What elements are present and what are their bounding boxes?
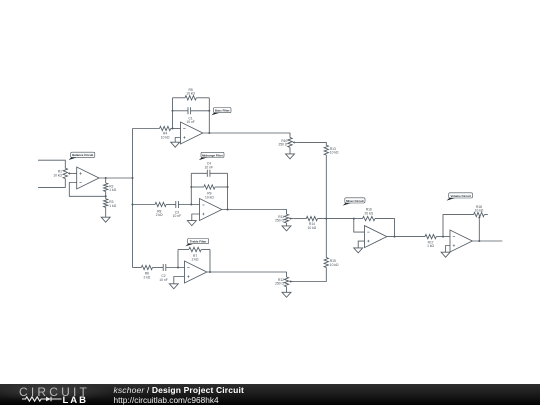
wire <box>105 178 107 183</box>
ground <box>354 248 363 253</box>
svg-text:10 kΩ: 10 kΩ <box>308 226 317 230</box>
svg-text:250 Ω: 250 Ω <box>279 143 288 147</box>
wire <box>175 138 180 143</box>
wire <box>436 236 450 238</box>
svg-text:10 nF: 10 nF <box>173 214 181 218</box>
svg-text:10 kΩ: 10 kΩ <box>330 263 339 267</box>
callout Bass Filter <box>211 108 231 116</box>
resistor R7 <box>189 247 201 251</box>
node Q <box>478 240 480 242</box>
label R14 10k <box>308 222 317 230</box>
resistor R4 <box>160 126 171 130</box>
resistor R15 <box>324 258 328 268</box>
wire <box>209 250 211 273</box>
svg-text:10 kΩ: 10 kΩ <box>53 173 62 177</box>
wire <box>73 172 77 174</box>
wire <box>210 172 228 174</box>
resistor R17 <box>425 234 436 238</box>
node P <box>442 236 444 238</box>
wire <box>173 97 186 99</box>
svg-text:10 kΩ: 10 kΩ <box>186 92 195 96</box>
node input bottom <box>38 179 65 188</box>
node G <box>190 204 192 206</box>
wire <box>318 218 354 220</box>
potentiometer R11 <box>284 214 293 223</box>
potentiometer R10 <box>288 138 297 148</box>
wire <box>201 249 210 251</box>
wire <box>286 287 288 293</box>
svg-text:Treble Filter: Treble Filter <box>190 240 207 244</box>
wire <box>191 110 210 112</box>
node N <box>353 218 355 220</box>
wire <box>208 98 210 133</box>
wire <box>105 192 107 197</box>
wire <box>166 204 176 206</box>
label R15 10k <box>330 259 339 267</box>
svg-text:20 kΩ: 20 kΩ <box>364 211 373 215</box>
node H <box>190 186 192 188</box>
ground <box>187 221 196 226</box>
svg-text:1 kΩ: 1 kΩ <box>109 204 116 208</box>
wire <box>178 249 189 251</box>
wire <box>294 268 327 282</box>
resistor R5 <box>185 96 196 100</box>
wire <box>207 272 287 277</box>
ground <box>101 217 110 222</box>
wire <box>171 128 181 130</box>
wire <box>105 207 107 217</box>
wire <box>190 173 192 204</box>
wire <box>297 142 326 145</box>
svg-text:Mixer Circuit: Mixer Circuit <box>346 199 364 203</box>
capacitor C4 <box>207 170 210 177</box>
wire <box>375 219 395 237</box>
node O <box>394 236 396 238</box>
node E <box>208 110 210 112</box>
label R16 20k <box>364 208 373 216</box>
ground <box>171 142 180 147</box>
label R17 1k <box>427 240 434 248</box>
potentiometer R1 <box>63 168 73 178</box>
wire <box>478 219 480 241</box>
node F <box>208 132 210 134</box>
svg-text:250 Ω: 250 Ω <box>275 219 284 223</box>
wire <box>177 250 179 268</box>
node input top <box>38 160 65 168</box>
op-amp OA4 <box>185 261 207 283</box>
node C <box>172 128 174 130</box>
op-amp OA2 <box>181 122 203 144</box>
wire <box>174 277 185 284</box>
svg-text:10 nF: 10 nF <box>159 278 167 282</box>
label R8 2k <box>156 209 163 217</box>
wire <box>294 218 307 220</box>
ground <box>169 284 178 289</box>
node M <box>209 271 211 273</box>
wire <box>99 177 133 179</box>
label C3 10nF <box>173 210 181 218</box>
potentiometer R12 <box>284 277 293 287</box>
logo text LAB <box>63 395 89 405</box>
label C1 10nF <box>186 117 194 125</box>
resistor R3 <box>103 199 107 208</box>
wire <box>105 196 107 199</box>
svg-text:2 kΩ: 2 kΩ <box>192 258 199 262</box>
svg-text:10 kΩ: 10 kΩ <box>475 209 484 213</box>
wire <box>196 97 209 99</box>
svg-text:10 kΩ: 10 kΩ <box>205 195 214 199</box>
ground <box>441 252 450 257</box>
resistor R2 <box>103 183 107 192</box>
svg-text:Bass Filter: Bass Filter <box>215 109 231 113</box>
label R10 250 <box>279 139 288 147</box>
potentiometer R18 <box>474 212 485 219</box>
wire bus right <box>325 155 327 219</box>
callout Mixer Circuit <box>343 198 365 206</box>
wire <box>472 240 502 242</box>
label R9 10k <box>205 192 214 200</box>
resistor R6 <box>141 265 152 269</box>
node L <box>177 267 179 269</box>
wire <box>289 147 291 154</box>
wire <box>358 241 364 248</box>
svg-text:Midrange Filter: Midrange Filter <box>202 153 224 157</box>
resistor R13 <box>324 145 328 155</box>
wire <box>166 267 185 269</box>
wire <box>484 214 488 216</box>
op-amp OA3 <box>200 199 222 221</box>
wire <box>153 267 164 269</box>
label R18 10k <box>475 205 484 213</box>
label R12 250 <box>275 278 284 286</box>
op-amp OA5 <box>365 226 387 248</box>
callout Volume Circuit <box>447 193 473 201</box>
svg-text:250 Ω: 250 Ω <box>275 282 284 286</box>
resistor R16 <box>363 216 375 220</box>
label R2 1k <box>109 184 116 192</box>
wire <box>387 236 425 238</box>
callout Treble Filter <box>185 239 208 247</box>
label R4 10k <box>161 132 170 140</box>
wire <box>203 133 290 138</box>
wire <box>173 110 189 112</box>
resistor R14 <box>306 216 317 220</box>
capacitor C2 <box>163 264 166 271</box>
node I <box>227 186 229 188</box>
footer url <box>114 395 219 405</box>
svg-text:10 kΩ: 10 kΩ <box>161 135 170 139</box>
label C4 10nF <box>205 162 213 170</box>
op-amp OA1 <box>77 167 99 189</box>
capacitor C1 <box>188 107 191 114</box>
label C2 10nF <box>159 274 167 282</box>
svg-text:1 kΩ: 1 kΩ <box>427 244 434 248</box>
wire <box>178 204 199 206</box>
capacitor C3 <box>176 201 179 208</box>
svg-text:1 kΩ: 1 kΩ <box>109 188 116 192</box>
footer bar <box>0 384 540 405</box>
svg-text:Volume Circuit: Volume Circuit <box>451 194 471 198</box>
wire <box>133 128 160 130</box>
wire <box>133 204 156 206</box>
resistor R8 <box>155 202 166 206</box>
label R3 1k <box>109 200 116 208</box>
wire <box>227 173 229 209</box>
node bus-balance <box>132 177 134 179</box>
svg-text:2 kΩ: 2 kΩ <box>143 275 150 279</box>
svg-text:10 kΩ: 10 kΩ <box>330 151 339 155</box>
node J <box>227 209 229 211</box>
svg-text:Balance Circuit: Balance Circuit <box>72 153 93 157</box>
wire bus <box>132 129 134 268</box>
wire <box>443 215 474 237</box>
node B <box>105 195 107 197</box>
label R5 10k <box>186 88 195 96</box>
wire <box>354 219 365 233</box>
node D <box>172 110 174 112</box>
wire <box>325 219 327 258</box>
wire <box>446 246 450 253</box>
wire <box>286 223 288 226</box>
node bus-mid <box>132 204 134 206</box>
wire <box>222 210 287 215</box>
node A <box>105 177 107 179</box>
wire <box>69 183 105 197</box>
wire <box>354 218 363 220</box>
wire <box>133 267 142 269</box>
label R6 2k <box>143 272 150 280</box>
wire <box>215 186 228 188</box>
callout Balance Circuit <box>69 152 95 160</box>
logo resistor-diode glyph <box>22 396 62 402</box>
svg-text:2 kΩ: 2 kΩ <box>156 213 163 217</box>
svg-text:10 nF: 10 nF <box>186 120 194 124</box>
wire <box>191 172 207 174</box>
label R13 10k <box>330 147 339 155</box>
label R1 10k <box>53 170 62 178</box>
label R7 2k <box>192 254 199 262</box>
node K <box>325 218 327 220</box>
wire <box>192 214 200 221</box>
ground <box>286 154 295 159</box>
svg-text:10 nF: 10 nF <box>205 165 213 169</box>
label R11 250 <box>275 215 284 223</box>
op-amp OA6 <box>450 230 472 252</box>
CircuitLab logo text CIRCUIT <box>19 385 90 399</box>
resistor R9 <box>204 185 215 189</box>
ground <box>282 226 291 231</box>
footer title <box>114 385 244 395</box>
ground <box>282 292 291 297</box>
wire <box>172 98 174 129</box>
callout Midrange Filter <box>199 152 224 160</box>
wire <box>191 186 204 188</box>
